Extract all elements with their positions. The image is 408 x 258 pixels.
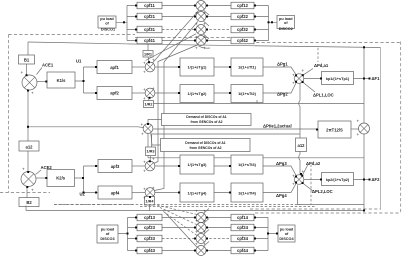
wire node B1 diagonal to G4 [157, 205, 197, 215]
svg-text:+: + [143, 70, 146, 75]
svg-text:ΔPg2: ΔPg2 [277, 92, 288, 97]
box 2piT12/s [318, 121, 351, 138]
svg-text:ACE1: ACE1 [42, 63, 54, 68]
outer dashed boundary [0, 35, 401, 214]
box apf1 [97, 61, 132, 74]
wire stub node1 lower input [204, 10, 210, 15]
box governor 1/(1+sTg1) [180, 58, 214, 76]
svg-text:+: + [357, 119, 360, 124]
box cpf32 [231, 26, 254, 33]
svg-text:ΔPd,a1: ΔPd,a1 [314, 63, 329, 68]
wire node3 output diagonal and vertical to governor junction G3 [146, 34, 199, 164]
svg-text:+: + [292, 73, 295, 78]
wire cpf21 to node2 [162, 16, 196, 18]
wire ACE2 to controller K2 [36, 177, 47, 179]
box cpf12 [231, 2, 254, 9]
svg-text:pu load: pu load [279, 17, 293, 21]
svg-text:1/(1+sTt1): 1/(1+sTt1) [238, 66, 257, 70]
wire G3 to governor3 [155, 165, 181, 167]
wire cpf41 to node4 [162, 40, 196, 42]
wire 1/R4 feedback stub [149, 205, 151, 211]
box cpf33 [137, 235, 162, 242]
svg-text:kp2/(1+sTp2): kp2/(1+sTp2) [326, 178, 350, 182]
box cpf13 [137, 214, 162, 221]
svg-text:cpf14: cpf14 [237, 215, 249, 220]
box pu load of DISCO2 [277, 16, 295, 29]
svg-text:apf2: apf2 [110, 91, 119, 96]
svg-text:cpf31: cpf31 [144, 27, 156, 32]
wire dF1 vertical [363, 47, 365, 123]
svg-text:+: + [195, 46, 198, 51]
wire stub node2 lower input [204, 21, 210, 26]
box cpf41 [137, 37, 162, 44]
wire node B4 diagonal up [165, 213, 197, 248]
wire droop drop to 1/R1 [148, 44, 149, 63]
svg-text:U1: U1 [76, 59, 82, 64]
svg-text:ΔF2: ΔF2 [372, 177, 381, 182]
svg-text:+: + [195, 219, 198, 224]
wire cpf24 to node B2 [206, 227, 231, 229]
box governor 1/(1+sTg2) [180, 85, 214, 103]
wire G1 to governor1 [155, 66, 181, 68]
junction dots top section [123, 21, 125, 23]
svg-text:DISCO1: DISCO1 [101, 28, 115, 32]
svg-text:ΔPg4: ΔPg4 [276, 193, 287, 198]
wire cpf23 to node B2 [162, 227, 196, 229]
svg-text:Demand of DISCOs of A1: Demand of DISCOs of A1 [185, 141, 225, 145]
svg-text:cpf32: cpf32 [237, 27, 249, 32]
wire dPd,a2 dashed drop [310, 165, 312, 205]
svg-text:1/R4: 1/R4 [145, 200, 154, 204]
wire stub node3 lower input [204, 34, 210, 39]
wire node B2 diagonal up [160, 208, 197, 225]
box cpf42 [231, 37, 254, 44]
wire local demand vertical with hops [299, 83, 300, 175]
wire governor1 to turbine1 [214, 66, 231, 68]
svg-text:cpf44: cpf44 [237, 248, 249, 253]
svg-text:+: + [31, 91, 34, 96]
wire node2 output diagonal to governor junction G2 [164, 21, 198, 62]
svg-text:1/(1+sTt2): 1/(1+sTt2) [238, 92, 257, 96]
wire stub demand feed [256, 100, 258, 104]
svg-text:1/(1+sTg1): 1/(1+sTg1) [188, 66, 208, 70]
wire stub node B2 upper [204, 219, 210, 224]
svg-text:a12: a12 [26, 144, 34, 149]
summing node S4 [196, 36, 206, 46]
svg-text:+: + [195, 22, 198, 27]
wire dashed demand bus bottom1 [54, 204, 300, 206]
wire stub node B4 upper [204, 242, 210, 247]
wire cpf12 to node1 [206, 5, 231, 7]
wire governor3 to turbine3 [214, 165, 231, 167]
box cpf14 [231, 214, 254, 221]
box turbine 1/(1+sTt3) [231, 155, 263, 174]
box pu load of DISCO3 [97, 225, 118, 243]
svg-text:+: + [195, 209, 198, 214]
summing node S3 [196, 25, 206, 35]
svg-text:ΔPg3: ΔPg3 [276, 161, 287, 166]
box governor 1/(1+sTg3) [180, 155, 214, 174]
svg-text:cpf22: cpf22 [237, 14, 249, 19]
wire cpf44 to node B4 [206, 250, 231, 252]
wire demand box2 to T1 [151, 133, 161, 145]
svg-text:cpf33: cpf33 [144, 236, 156, 241]
power summing junction P1 [294, 74, 304, 84]
junction dots area1 [26, 74, 28, 76]
box apf3 [98, 160, 132, 173]
svg-text:pu load: pu load [280, 228, 294, 232]
wire feedback to 1/R2 [154, 103, 365, 105]
wire tie scheduled line to 2piT12 block [153, 128, 319, 130]
svg-text:+: + [152, 86, 155, 91]
box B1 [19, 55, 35, 64]
svg-text:+: + [143, 61, 146, 66]
box pu load of DISCO1 [98, 16, 116, 28]
svg-text:+: + [203, 35, 206, 40]
box power system kp2/(1+sTp2) [322, 173, 354, 186]
wire apf2 to G2 [132, 92, 146, 94]
wire dPd,a1 pointer [303, 69, 313, 76]
svg-text:+: + [22, 167, 25, 172]
svg-text:1/(1+sTg4): 1/(1+sTg4) [188, 192, 208, 196]
wire DISCO4 feed [254, 218, 278, 251]
wire B1 drop [27, 42, 29, 55]
svg-text:from GENCOs of A2: from GENCOs of A2 [189, 146, 221, 150]
wire stub node B3 upper [204, 230, 210, 235]
governor junction G4 [145, 188, 155, 198]
svg-text:+: + [203, 22, 206, 27]
governor junction G2 [145, 88, 155, 98]
svg-text:+: + [21, 70, 24, 75]
power summing junction P2 [294, 175, 304, 185]
box 1/R4 [145, 197, 155, 206]
box apf2 [97, 87, 132, 100]
svg-text:1/(1+sTg2): 1/(1+sTg2) [188, 92, 208, 96]
svg-text:1/R2: 1/R2 [144, 103, 152, 107]
svg-text:B1: B1 [24, 58, 30, 63]
svg-text:cpf43: cpf43 [144, 248, 156, 253]
svg-text:2πT12/S: 2πT12/S [326, 127, 343, 132]
wire cpf32 to node3 [206, 29, 229, 31]
svg-text:apf4: apf4 [111, 191, 120, 196]
svg-text:DISCO3: DISCO3 [100, 237, 114, 241]
summing node SB4 [196, 246, 206, 256]
svg-text:+: + [143, 160, 146, 165]
svg-text:K2/s: K2/s [56, 176, 66, 181]
wire DISCO3 feed [118, 218, 137, 251]
wire cpf42 to node4 [206, 40, 231, 42]
svg-text:cpf12: cpf12 [237, 3, 249, 8]
wire node B3 diagonal up [162, 211, 197, 236]
svg-text:ΔPd,a2: ΔPd,a2 [306, 161, 321, 166]
summing junction ACE2 [21, 172, 36, 187]
box pu load of DISCO4 [278, 225, 295, 242]
svg-text:1/(1+sTg3): 1/(1+sTg3) [188, 163, 208, 167]
box apf4 [98, 186, 132, 199]
box a12 tie gain left [19, 141, 39, 151]
junction dots bottom section [127, 233, 129, 235]
wire dF2 vertical [363, 134, 365, 211]
wire stub node4 lower input [199, 46, 210, 48]
svg-text:+: + [292, 182, 295, 187]
wire turbine3 to power junction P2 [263, 166, 297, 176]
svg-text:cpf11: cpf11 [144, 3, 155, 8]
box turbine 1/(1+sTt4) [231, 183, 263, 202]
box turbine 1/(1+sTt2) [231, 85, 263, 103]
wire turbine1 to power junction P1 [263, 67, 297, 75]
box cpf31 [137, 26, 162, 33]
wire apf3 to G3 [132, 165, 146, 167]
svg-text:+: + [302, 68, 305, 73]
junction dots area2 [27, 171, 29, 173]
wire dPL2,LOC pointer [303, 183, 313, 191]
wire 1/R3 to G3 [149, 156, 152, 162]
box demand of DISCOs 1 [162, 114, 252, 126]
wire turbine2 to power junction P1 [263, 82, 297, 93]
box governor 1/(1+sTg4) [180, 183, 214, 202]
box cpf22 [231, 13, 254, 20]
wire dashed demand bus bottom2 [140, 206, 315, 208]
svg-text:+: + [302, 169, 305, 174]
wire P1 to power system block [304, 78, 322, 80]
svg-text:pu load: pu load [100, 17, 114, 21]
svg-text:+: + [357, 132, 360, 137]
svg-text:ΔPL2,LOC: ΔPL2,LOC [312, 189, 333, 194]
svg-text:+: + [203, 230, 206, 235]
svg-text:apf3: apf3 [111, 164, 120, 169]
svg-text:+: + [152, 58, 155, 63]
wire B1 to ACE1 junction [26, 64, 28, 75]
wire P2 to power system block [304, 179, 322, 181]
wire governor4 to turbine4 [214, 192, 231, 194]
box controller K1/s [47, 72, 75, 88]
svg-text:cpf42: cpf42 [237, 38, 249, 43]
summing node S2 [196, 12, 206, 22]
wire ACE1 to controller K1 [37, 81, 47, 83]
summing node SB3 [196, 234, 206, 244]
svg-text:apf1: apf1 [110, 65, 119, 70]
box controller K2/s [47, 170, 75, 187]
svg-text:+: + [292, 81, 295, 86]
svg-text:cpf41: cpf41 [144, 38, 156, 43]
box cpf44 [231, 247, 254, 254]
wire cpf13 to node B1 [162, 217, 196, 219]
svg-text:+: + [141, 132, 144, 137]
svg-text:+: + [141, 122, 144, 127]
svg-text:cpf24: cpf24 [237, 225, 249, 230]
svg-text:+: + [195, 11, 198, 16]
wire DISCO2 feed [254, 6, 277, 41]
svg-text:+: + [195, 230, 198, 235]
wire cpf43 to node B4 [162, 250, 196, 252]
svg-text:cpf34: cpf34 [237, 236, 249, 241]
svg-text:1/R1: 1/R1 [144, 53, 152, 57]
svg-text:cpf21: cpf21 [144, 14, 156, 19]
box demand of DISCOs 2 [161, 139, 251, 152]
svg-text:+: + [292, 174, 295, 179]
box 1/R3 [146, 147, 156, 156]
svg-text:+: + [203, 242, 206, 247]
svg-text:+: + [203, 11, 206, 16]
wire apf1 to G1 [132, 66, 146, 68]
wire dF2 output [354, 179, 371, 181]
svg-text:+: + [203, 209, 206, 214]
box B2 [19, 198, 39, 207]
tie summing junction T1 [143, 124, 153, 134]
svg-text:a12: a12 [298, 143, 306, 148]
svg-text:ACE2: ACE2 [41, 165, 53, 170]
box 1/R1 [143, 51, 153, 58]
svg-text:+: + [143, 187, 146, 192]
summing node SB1 [196, 213, 206, 223]
wire cpf11 to node1 [162, 5, 196, 7]
summing node S1 [196, 1, 206, 11]
svg-text:ΔPg1: ΔPg1 [277, 62, 288, 67]
tie summing junction T2 [359, 123, 370, 134]
box a12 tie gain right [296, 138, 307, 152]
svg-text:+: + [143, 196, 146, 201]
svg-text:1/R3: 1/R3 [146, 150, 154, 154]
svg-text:from GENCOs of A2: from GENCOs of A2 [190, 120, 222, 124]
box cpf34 [231, 235, 254, 242]
wire dashed demand bus top [317, 48, 319, 62]
wire turbine4 to power junction P2 [263, 183, 297, 193]
wire cpf22 to node2 [206, 16, 231, 18]
box cpf23 [137, 224, 162, 231]
svg-text:+: + [203, 46, 206, 51]
wire local load L [298, 185, 365, 204]
svg-text:+: + [143, 169, 146, 174]
box cpf11 [137, 2, 162, 9]
svg-text:cpf23: cpf23 [144, 225, 156, 230]
wire DISCO1 feed [116, 6, 137, 41]
svg-text:1/(1+sTt4): 1/(1+sTt4) [238, 192, 257, 196]
governor junction G1 [145, 62, 155, 72]
wire G2 to governor2 [155, 92, 181, 94]
svg-text:B2: B2 [26, 200, 32, 205]
wire frequency feedback dF2 bottom [26, 210, 364, 212]
svg-text:+: + [143, 87, 146, 92]
box turbine 1/(1+sTt1) [231, 58, 263, 76]
wire dPd,a2 pointer [302, 165, 308, 176]
svg-text:DISCO2: DISCO2 [279, 27, 293, 31]
svg-text:pu load: pu load [101, 228, 115, 232]
wire 1/R2 to G2 [149, 98, 150, 101]
svg-text:K1/s: K1/s [57, 78, 67, 83]
wire governor2 to turbine2 [214, 92, 231, 94]
wire tie error to ACE bus [28, 90, 144, 172]
svg-text:+: + [195, 242, 198, 247]
wire block to tie junction T2 [351, 128, 359, 130]
svg-text:ΔPL1,LOC: ΔPL1,LOC [313, 93, 334, 98]
wire node1 output diagonal to governor junction G1 [152, 10, 199, 64]
box cpf21 [137, 13, 162, 20]
svg-text:+: + [152, 186, 155, 191]
wire dF1 output [354, 78, 371, 80]
svg-text:1/(1+sTt3): 1/(1+sTt3) [238, 163, 257, 167]
wire feedback to 1/R3 [152, 134, 300, 147]
wire G4 to governor4 [155, 192, 181, 194]
wire cpf14 to node B1 [206, 217, 231, 219]
svg-text:ΔF1: ΔF1 [372, 76, 381, 81]
svg-text:ΔPtie1,2actual: ΔPtie1,2actual [263, 124, 292, 129]
wire apf4 to G4 [132, 192, 146, 194]
box cpf43 [137, 247, 162, 254]
summing junction ACE1 [22, 75, 37, 90]
wire cpf31 to node3 [162, 29, 196, 31]
svg-text:+: + [31, 188, 34, 193]
wire B2 drop to feedback [25, 206, 27, 211]
svg-text:+: + [152, 157, 155, 162]
wire demand box1 to T1 [148, 120, 162, 124]
svg-text:DISCO4: DISCO4 [279, 237, 294, 241]
wire B2 to ACE2 [26, 187, 28, 198]
svg-text:cpf13: cpf13 [144, 215, 156, 220]
summing node SB2 [196, 223, 206, 233]
box power system kp1/(1+sTp1) [322, 72, 354, 85]
svg-text:+: + [195, 35, 198, 40]
box cpf24 [231, 224, 254, 231]
wire stub node B1 upper [204, 209, 210, 214]
wire tie circle lower line [148, 133, 364, 158]
svg-text:+: + [143, 96, 146, 101]
box 1/R2 [144, 101, 154, 108]
wire cpf33 to node B3 [162, 238, 196, 240]
wire node4 output diagonal and vertical to governor junction G4 [155, 62, 165, 191]
svg-text:Demand of DISCOs of A1: Demand of DISCOs of A1 [186, 115, 226, 119]
wire dPL1,LOC pointer [303, 82, 315, 92]
governor junction G3 [145, 161, 155, 171]
svg-text:+: + [203, 219, 206, 224]
svg-text:kp1/(1+sTp1): kp1/(1+sTp1) [326, 77, 350, 81]
wire frequency feedback dF1 top [28, 42, 381, 48]
wire cpf34 to node B3 [206, 238, 229, 240]
wire controller output branch U2 [75, 166, 99, 193]
wire controller output branch U1 [75, 67, 97, 93]
